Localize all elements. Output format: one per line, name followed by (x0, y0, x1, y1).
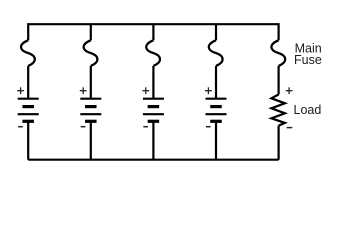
wire battery3 to bottom bus (152, 121, 154, 159)
battery B3 (143, 99, 164, 122)
fuse F1 (21, 40, 35, 66)
wire battery4 to bottom bus (215, 121, 217, 159)
wire branch 2 top (90, 24, 92, 40)
battery B1 plus sign (17, 87, 24, 94)
load minus sign (287, 127, 293, 129)
wire branch 4 top (215, 24, 217, 40)
wire fuse2 to battery2 (90, 66, 92, 99)
svg-text:Load: Load (294, 103, 322, 117)
bottom bus wire (28, 159, 278, 161)
battery B3 plus sign (142, 87, 149, 94)
battery B4 (206, 99, 227, 122)
wire branch 3 top (152, 24, 154, 40)
battery B4 plus sign (205, 87, 212, 94)
fuse F2 (84, 40, 98, 66)
wire battery2 to bottom bus (90, 121, 92, 159)
battery B2 (80, 99, 101, 122)
battery B1 minus sign (18, 126, 23, 128)
resistor load (271, 95, 285, 126)
fuse F4 (209, 40, 223, 66)
wire fuse4 to battery4 (215, 66, 217, 99)
load plus sign (286, 87, 293, 94)
fuse F3 (146, 40, 160, 66)
battery B3 minus sign (143, 126, 148, 128)
main fuse F5 (271, 40, 285, 66)
wire fuse1 to battery1 (27, 66, 29, 99)
wire battery1 to bottom bus (27, 121, 29, 159)
top bus wire (28, 24, 278, 40)
battery B4 minus sign (206, 126, 211, 128)
battery B1 (18, 99, 39, 122)
wire main fuse to load (278, 66, 280, 95)
wire fuse3 to battery3 (152, 66, 154, 99)
battery B2 plus sign (80, 87, 87, 94)
battery B2 minus sign (81, 126, 86, 128)
svg-text:Fuse: Fuse (294, 53, 322, 67)
wire load to bottom bus (278, 126, 280, 160)
